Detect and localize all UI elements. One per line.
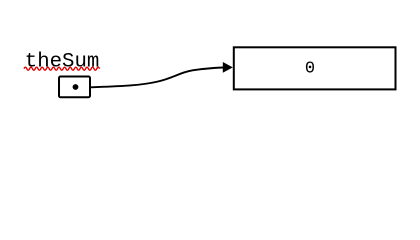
pointer dot bbox=[73, 84, 79, 90]
arrow wire (curved connector) bbox=[91, 68, 224, 88]
svg-text:0: 0 bbox=[305, 60, 315, 79]
variable box (pointer cell) bbox=[59, 77, 90, 98]
arrowhead bbox=[223, 62, 233, 73]
value box bbox=[234, 47, 396, 89]
dot inside zero (dotted-zero style) bbox=[309, 66, 312, 69]
red misspelling squiggle under theSum bbox=[24, 67, 100, 70]
